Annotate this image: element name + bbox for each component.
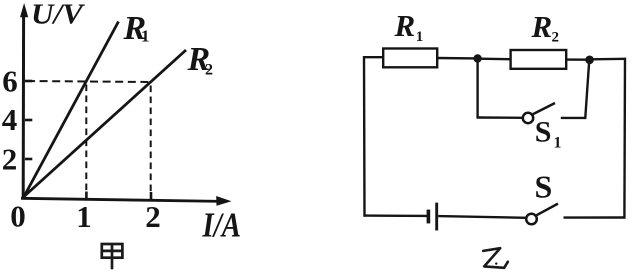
y-axis shaft	[22, 14, 25, 198]
switch S1 blade	[533, 103, 555, 114]
y tick 6	[25, 80, 32, 83]
wire: S1 branch left drop from node A	[476, 60, 478, 118]
svg-text:1: 1	[416, 29, 424, 45]
switch S blade	[537, 204, 558, 216]
wire: node B to right corner	[591, 58, 626, 61]
dashed vertical at I=1	[85, 85, 87, 192]
wire: left vertical	[363, 56, 366, 217]
dashed horizontal at U=6	[27, 81, 151, 82]
wire: S1 branch bottom left	[477, 116, 524, 119]
svg-text:I/A: I/A	[202, 206, 241, 245]
wire: right vertical	[623, 58, 626, 219]
svg-text:4: 4	[2, 102, 18, 137]
wire: S1 branch right rise to node B	[585, 61, 589, 119]
svg-text:6: 6	[2, 63, 18, 98]
wire: battery to switch S	[438, 216, 526, 218]
x-axis arrowhead	[216, 196, 231, 206]
wire: node A to R2	[479, 58, 512, 61]
label 甲 (drawn strokes)	[101, 244, 123, 270]
svg-text:2: 2	[552, 30, 560, 46]
battery positive plate (long thin)	[435, 203, 438, 231]
svg-text:1: 1	[76, 199, 92, 234]
y-axis arrowhead	[20, 3, 28, 17]
resistor R1 box	[383, 49, 437, 68]
svg-text:1: 1	[554, 135, 562, 152]
node B (junction dot)	[585, 56, 594, 65]
x-axis shaft	[21, 198, 222, 201]
wire: top-left to R1	[363, 56, 384, 58]
resistor R2 box	[511, 50, 567, 69]
wire: bottom right	[564, 216, 626, 219]
svg-text:2: 2	[205, 62, 213, 79]
node A (junction dot)	[473, 54, 481, 62]
svg-text:1: 1	[141, 27, 150, 46]
svg-text:S: S	[535, 169, 553, 205]
svg-text:2: 2	[145, 199, 161, 234]
svg-text:2: 2	[2, 142, 18, 177]
line R2 (shallow)	[24, 50, 186, 197]
y tick 4	[25, 119, 32, 122]
battery negative plate (short thick)	[427, 210, 431, 224]
y tick 2	[25, 158, 32, 161]
svg-text:U/V: U/V	[31, 0, 86, 31]
wire: bottom left (to battery)	[364, 214, 428, 217]
switch S1 pivot circle	[523, 113, 533, 123]
wire: R2 to node B	[566, 58, 587, 61]
svg-text:0: 0	[10, 199, 26, 234]
label 乙 (drawn strokes)	[483, 248, 508, 268]
wire: R1 to node A	[437, 57, 476, 60]
line R1 (steep)	[24, 22, 119, 197]
dashed vertical at I=2	[150, 86, 152, 192]
x tick 2	[150, 192, 153, 199]
svg-text:R: R	[394, 8, 416, 43]
svg-text:S: S	[535, 116, 552, 149]
x tick 1	[85, 192, 88, 199]
switch S pivot circle	[526, 214, 537, 225]
wire: S1 branch right horizontal	[561, 117, 587, 119]
svg-text:R: R	[531, 9, 553, 44]
